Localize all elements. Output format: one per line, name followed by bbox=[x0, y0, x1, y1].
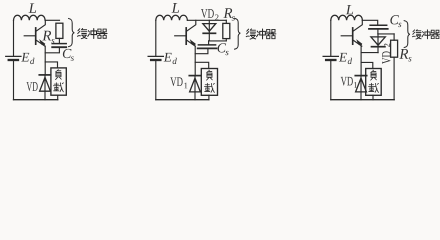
label Chinese buffer text (circuit 3) bbox=[412, 30, 421, 39]
diode VD freewheel (circuit 1) bbox=[39, 75, 50, 100]
capacitor Cs (circuit 3) bbox=[369, 25, 388, 29]
brace snubber annotation (circuit 2) bbox=[235, 18, 241, 49]
diode VD2 snubber (circuit 2) bbox=[203, 24, 216, 41]
wire: emitter down-spine (circuit 1) bbox=[44, 46, 46, 74]
wire: load bottom lead bbox=[57, 95, 59, 100]
battery Ed (circuit 3) bbox=[323, 56, 338, 60]
wire: left rail top (circuit 3) bbox=[330, 20, 332, 56]
load box (circuit 2) bbox=[201, 69, 217, 96]
inductor L1 coil bbox=[14, 15, 46, 20]
wire: left rail top (circuit 2) bbox=[155, 20, 157, 56]
transistor V1 (NPN, circuit 1) bbox=[24, 20, 45, 46]
diode VD1 freewheel (circuit 2) bbox=[189, 76, 200, 100]
label Chinese buffer text (circuit 1) bbox=[77, 29, 86, 39]
diode VD2 snubber (circuit 3) bbox=[371, 34, 385, 53]
glyph fu (circuit 2 load) bbox=[207, 70, 213, 80]
capacitor Cs (circuit 1) bbox=[52, 44, 66, 48]
wire: bus to Cs bbox=[208, 41, 210, 45]
label VD1 (circuit 2) bbox=[170, 77, 176, 86]
label VD (circuit 1) bbox=[26, 82, 32, 91]
label Chinese buffer text (circuit 2) bbox=[246, 29, 255, 39]
resistor Rs (circuit 2) bbox=[223, 20, 230, 41]
wire: VD2/Rs join bus bbox=[209, 40, 227, 42]
wire: VD2 stub from top wire bbox=[208, 20, 210, 23]
inductor L3 coil bbox=[331, 15, 363, 20]
wire: load branch jog (circuit 3) bbox=[361, 62, 373, 68]
glyph zai (circuit 1 load) bbox=[53, 83, 63, 92]
wire: top node (coil end to snubber) bbox=[45, 19, 59, 21]
wire: emitter down-spine (circuit 2) bbox=[194, 46, 196, 75]
glyph fu (circuit 1 load) bbox=[56, 70, 62, 80]
wire: Cs bottom to VD2/Rs node bbox=[377, 29, 379, 34]
resistor Rs (circuit 3) bbox=[391, 34, 398, 100]
wire: left rail top (coil to battery +) bbox=[13, 20, 15, 56]
capacitor Cs (circuit 2) bbox=[198, 45, 217, 49]
wire: top node (coil end over collector to snubber) bbox=[187, 19, 226, 21]
label VD2 (circuit 2, above snubber diode) bbox=[201, 9, 207, 18]
brace snubber annotation (circuit 1) bbox=[69, 19, 75, 47]
load box (circuit 3) bbox=[366, 69, 382, 96]
wire: VD2 bottom to emitter node bbox=[361, 52, 378, 54]
load box (circuit 1) bbox=[51, 68, 66, 95]
label L (circuit 1) bbox=[29, 3, 37, 13]
label Rs (circuit 3) bbox=[399, 49, 408, 59]
label Cs (circuit 2) bbox=[218, 43, 227, 52]
brace snubber annotation (circuit 3) bbox=[404, 21, 410, 48]
glyph fu (circuit 3 load) bbox=[371, 70, 377, 80]
label L (circuit 3) bbox=[346, 5, 353, 14]
transistor V2 (NPN, circuit 2) bbox=[175, 20, 196, 46]
wire: Cs bottom to emitter node bbox=[195, 48, 208, 53]
label Cs (circuit 1) bbox=[63, 49, 72, 58]
wire: load branch jog (circuit 2) bbox=[195, 62, 209, 68]
wire: load bottom lead (circuit 2) bbox=[208, 95, 210, 99]
wire: Rs to Cs bbox=[58, 38, 60, 43]
battery Ed (circuit 1) bbox=[6, 56, 21, 60]
label Rs (circuit 1) bbox=[42, 31, 51, 41]
label Cs (circuit 3) bbox=[390, 15, 399, 24]
label L (circuit 2) bbox=[172, 3, 180, 13]
wire: node bus to Rs (circuit 3) bbox=[378, 33, 394, 35]
wire: emitter down-spine (circuit 3) bbox=[360, 46, 362, 75]
diode VD1 freewheel (circuit 3) bbox=[355, 76, 366, 100]
wire: bottom rail (circuit 3) bbox=[331, 99, 394, 101]
wire: bottom rail (circuit 2) bbox=[156, 99, 209, 101]
label Ed (circuit 3) bbox=[339, 53, 347, 62]
label Ed (circuit 1) bbox=[21, 53, 29, 62]
wire: load branch jog (circuit 1) bbox=[45, 62, 57, 68]
wire: left rail bottom (circuit 3) bbox=[330, 60, 332, 100]
wire: bottom rail (circuit 1) bbox=[14, 99, 58, 101]
glyph zai (circuit 2 load) bbox=[204, 83, 214, 92]
label Ed (circuit 2) bbox=[164, 53, 172, 62]
wire: left rail bottom (circuit 2) bbox=[155, 60, 157, 100]
glyph zai (circuit 3 load) bbox=[369, 83, 379, 92]
wire: left rail bottom (battery - to bottom rail) bbox=[13, 60, 15, 100]
resistor Rs (circuit 1) bbox=[56, 23, 63, 38]
label VD1 (circuit 3) bbox=[341, 77, 347, 86]
label Rs (circuit 2, above resistor) bbox=[223, 8, 232, 18]
transistor V3 (NPN, circuit 3) bbox=[341, 20, 362, 46]
wire: Cs bottom to emitter node bbox=[45, 47, 59, 53]
wire: load bottom lead (circuit 3) bbox=[372, 95, 374, 99]
inductor L2 coil bbox=[156, 15, 188, 20]
wire: top node to Cs step (circuit 3) bbox=[362, 20, 377, 25]
label VD2 rotated (circuit 3) bbox=[382, 51, 390, 64]
battery Ed (circuit 2) bbox=[148, 56, 163, 60]
